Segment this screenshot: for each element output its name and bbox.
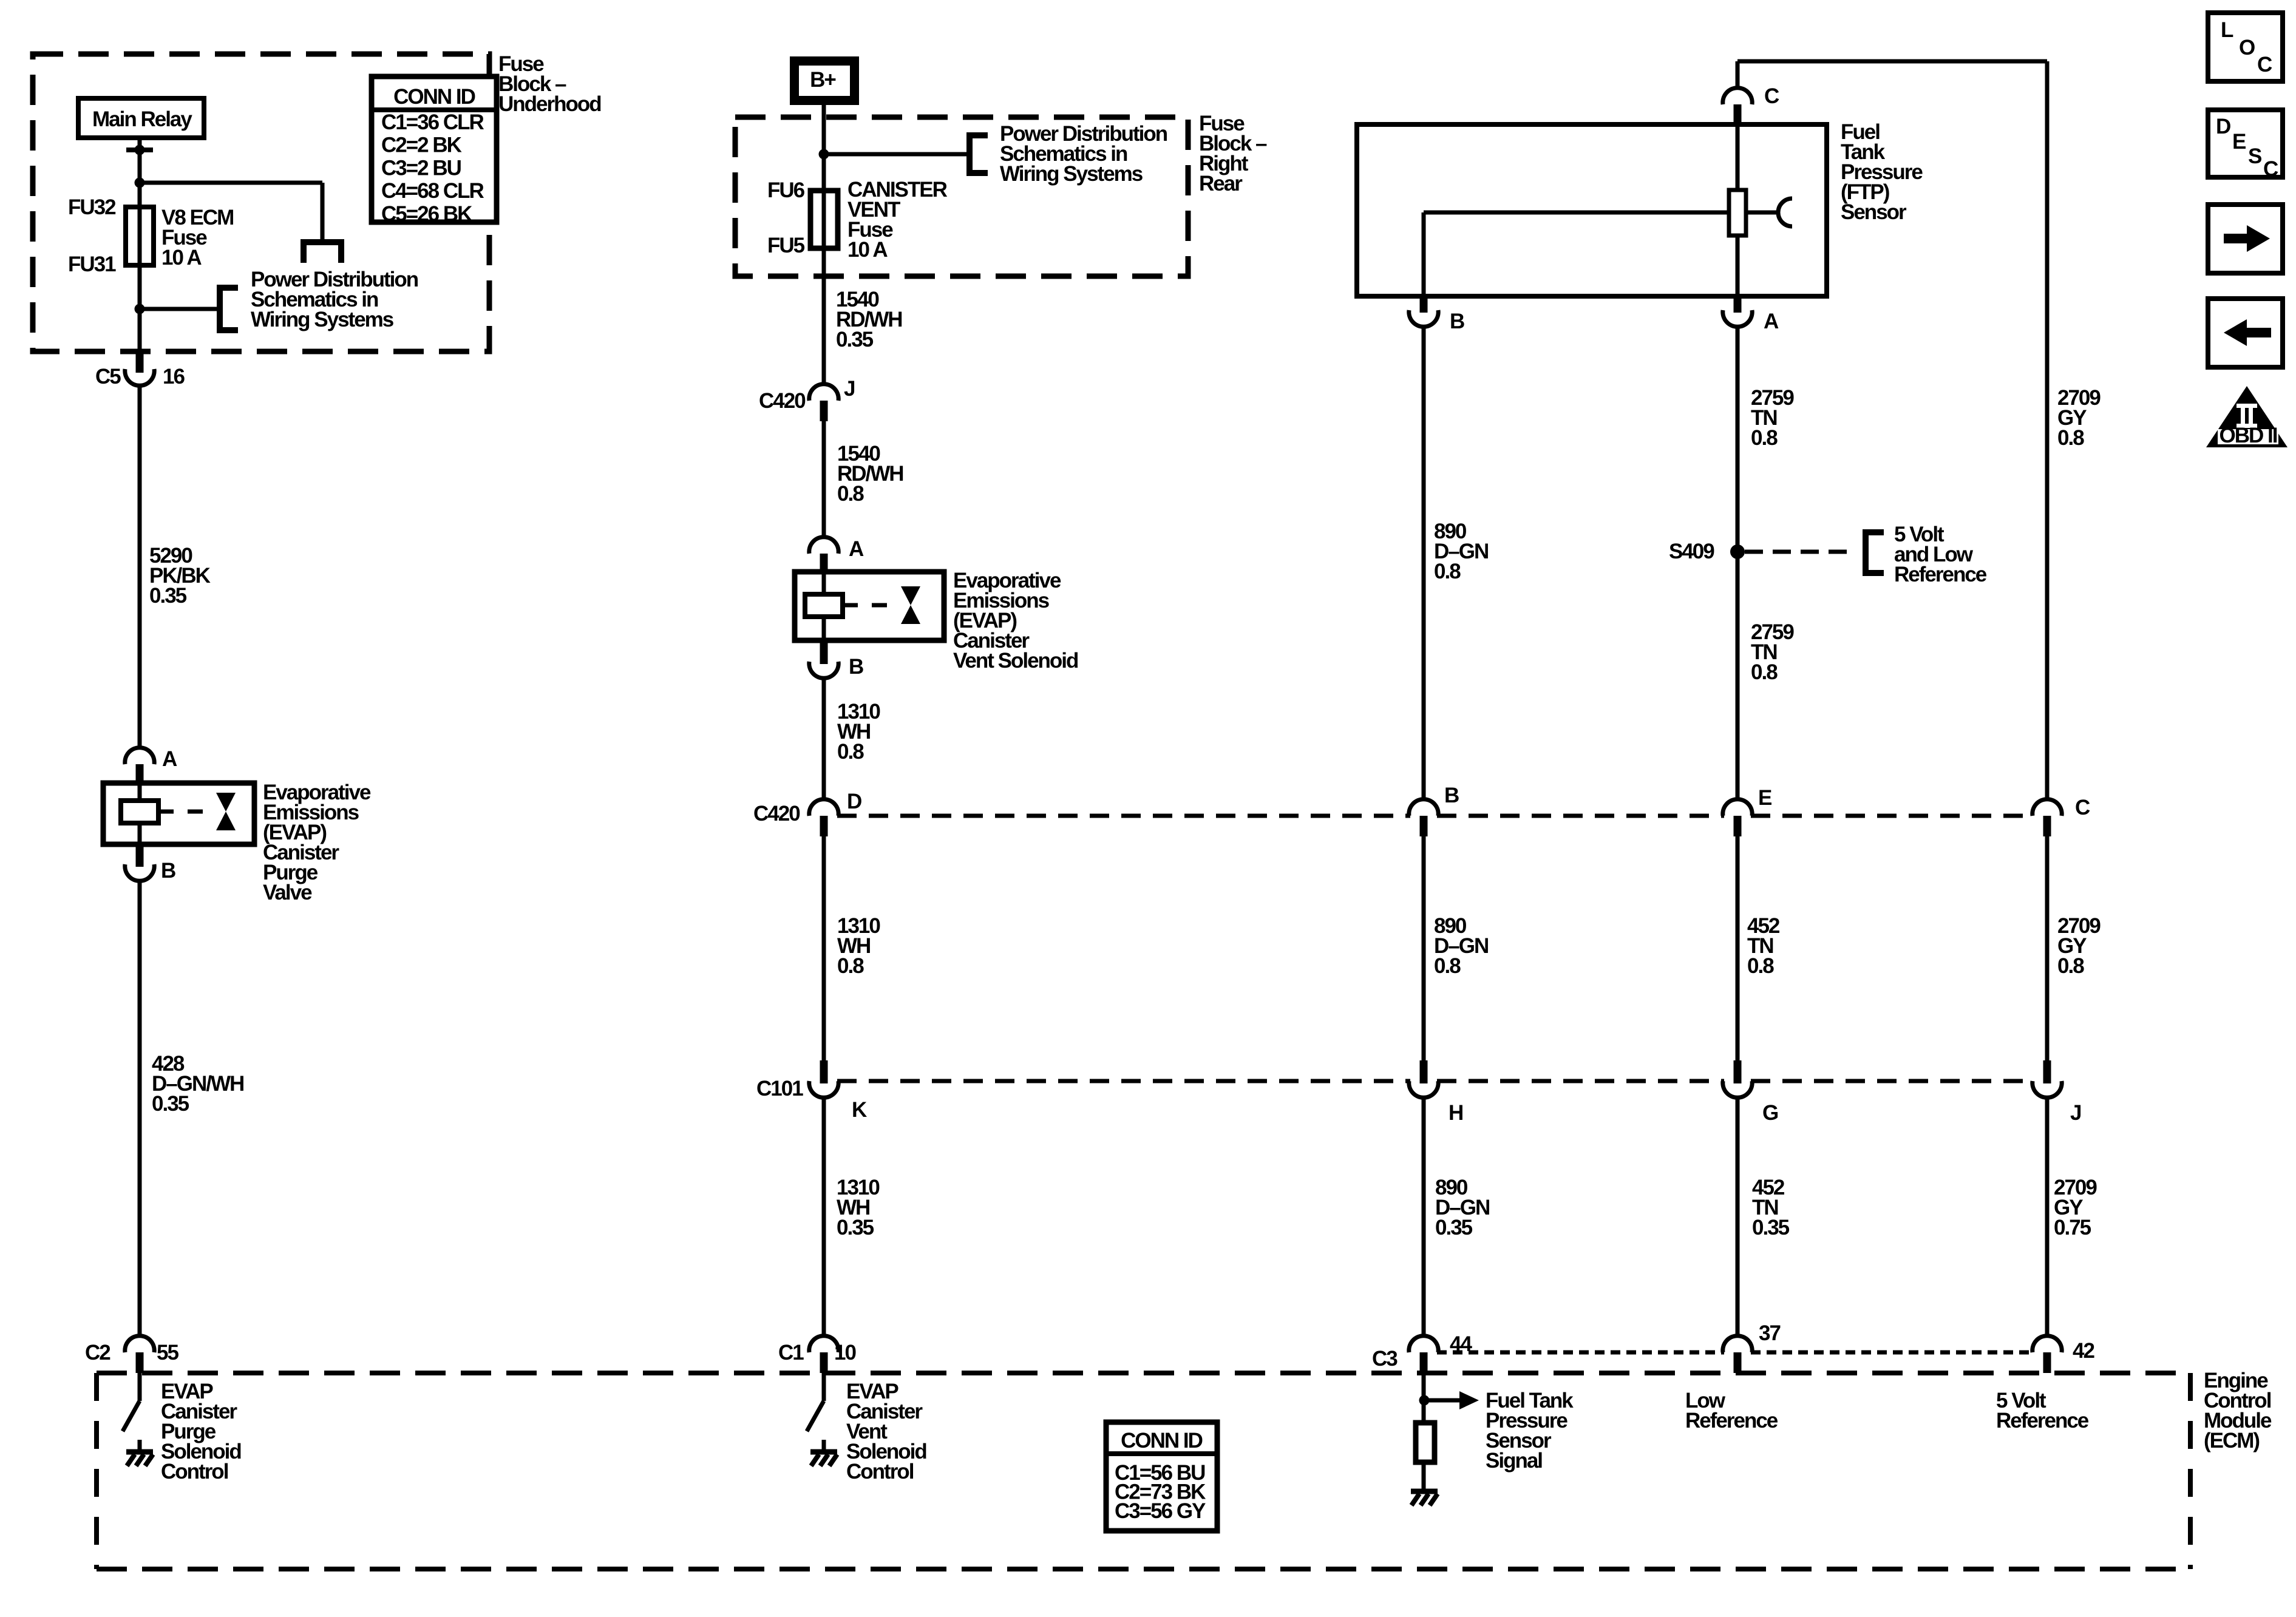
svg-text:FU32: FU32 xyxy=(68,195,116,219)
svg-text:C2: C2 xyxy=(85,1341,110,1364)
svg-text:OBD II: OBD II xyxy=(2220,424,2277,447)
svg-text:D: D xyxy=(2216,115,2230,138)
svg-text:10: 10 xyxy=(834,1341,856,1364)
svg-text:10 A: 10 A xyxy=(161,246,202,269)
svg-text:0.8: 0.8 xyxy=(837,740,864,764)
svg-text:A: A xyxy=(849,537,864,561)
svg-text:16: 16 xyxy=(163,365,185,388)
svg-text:Control: Control xyxy=(161,1460,228,1483)
svg-text:Underhood: Underhood xyxy=(498,92,601,116)
svg-text:C2=2 BK: C2=2 BK xyxy=(381,134,462,157)
svg-text:A: A xyxy=(162,747,177,771)
svg-text:C: C xyxy=(2075,796,2090,819)
svg-text:Wiring Systems: Wiring Systems xyxy=(251,308,394,331)
svg-text:B: B xyxy=(161,859,175,883)
svg-text:C3=56 GY: C3=56 GY xyxy=(1115,1499,1206,1523)
svg-text:S: S xyxy=(2248,144,2261,168)
svg-text:0.35: 0.35 xyxy=(837,1216,874,1239)
svg-text:Vent Solenoid: Vent Solenoid xyxy=(953,649,1078,673)
svg-text:C4=68 CLR: C4=68 CLR xyxy=(381,179,484,203)
svg-text:Reference: Reference xyxy=(1996,1409,2089,1432)
svg-text:G: G xyxy=(1762,1101,1778,1125)
svg-text:Control: Control xyxy=(846,1460,914,1483)
svg-text:Main Relay: Main Relay xyxy=(92,107,192,131)
svg-text:E: E xyxy=(1758,786,1771,810)
svg-text:0.8: 0.8 xyxy=(2057,954,2084,978)
svg-text:B: B xyxy=(1450,310,1464,333)
svg-text:H: H xyxy=(1449,1101,1462,1125)
svg-text:A: A xyxy=(1764,310,1779,333)
svg-text:C420: C420 xyxy=(753,802,800,825)
svg-text:Reference: Reference xyxy=(1894,563,1987,586)
svg-text:CONN ID: CONN ID xyxy=(393,85,475,109)
svg-text:(ECM): (ECM) xyxy=(2204,1429,2259,1453)
svg-text:0.8: 0.8 xyxy=(2057,426,2084,450)
svg-text:C1: C1 xyxy=(778,1341,804,1364)
svg-text:42: 42 xyxy=(2073,1339,2094,1363)
svg-text:10 A: 10 A xyxy=(847,238,888,262)
svg-text:J: J xyxy=(2070,1101,2081,1125)
svg-text:J: J xyxy=(844,377,855,401)
svg-text:0.8: 0.8 xyxy=(1434,560,1461,583)
svg-text:55: 55 xyxy=(157,1341,178,1364)
svg-text:Valve: Valve xyxy=(263,881,312,904)
svg-text:C5=26 BK: C5=26 BK xyxy=(381,202,472,226)
svg-text:K: K xyxy=(852,1098,867,1122)
svg-text:FU31: FU31 xyxy=(68,253,116,276)
svg-text:37: 37 xyxy=(1759,1321,1780,1345)
svg-text:FU5: FU5 xyxy=(767,234,805,257)
svg-text:S409: S409 xyxy=(1669,540,1714,563)
svg-text:C3: C3 xyxy=(1372,1347,1398,1371)
svg-text:0.75: 0.75 xyxy=(2054,1216,2091,1239)
svg-text:E: E xyxy=(2232,130,2246,154)
svg-text:D: D xyxy=(847,790,861,813)
svg-text:O: O xyxy=(2239,36,2255,59)
svg-text:B: B xyxy=(849,655,863,679)
svg-text:C: C xyxy=(2263,157,2278,181)
svg-text:Reference: Reference xyxy=(1685,1409,1778,1432)
svg-text:Rear: Rear xyxy=(1199,172,1243,195)
svg-text:C420: C420 xyxy=(759,389,806,413)
svg-text:C: C xyxy=(2257,53,2272,76)
svg-text:0.8: 0.8 xyxy=(1751,660,1778,684)
svg-text:Sensor: Sensor xyxy=(1841,200,1907,224)
svg-text:CONN ID: CONN ID xyxy=(1121,1429,1203,1453)
svg-text:0.8: 0.8 xyxy=(837,954,864,978)
svg-text:0.35: 0.35 xyxy=(836,328,874,351)
svg-text:B: B xyxy=(1444,784,1459,807)
svg-text:0.35: 0.35 xyxy=(1752,1216,1790,1239)
svg-text:0.35: 0.35 xyxy=(1435,1216,1473,1239)
svg-text:C3=2 BU: C3=2 BU xyxy=(381,156,461,180)
svg-text:0.8: 0.8 xyxy=(1747,954,1774,978)
svg-text:0.8: 0.8 xyxy=(837,482,864,506)
svg-text:0.8: 0.8 xyxy=(1434,954,1461,978)
svg-text:0.35: 0.35 xyxy=(149,584,187,608)
svg-text:C: C xyxy=(1764,84,1779,108)
svg-text:0.8: 0.8 xyxy=(1751,426,1778,450)
svg-text:Signal: Signal xyxy=(1486,1449,1542,1473)
svg-text:C101: C101 xyxy=(756,1077,803,1100)
svg-text:B+: B+ xyxy=(810,68,836,92)
svg-text:Wiring Systems: Wiring Systems xyxy=(1000,162,1143,186)
svg-text:C1=36 CLR: C1=36 CLR xyxy=(381,110,484,134)
svg-text:FU6: FU6 xyxy=(767,178,805,202)
svg-text:C5: C5 xyxy=(95,365,121,388)
svg-text:L: L xyxy=(2221,18,2233,42)
svg-text:0.35: 0.35 xyxy=(152,1092,189,1116)
